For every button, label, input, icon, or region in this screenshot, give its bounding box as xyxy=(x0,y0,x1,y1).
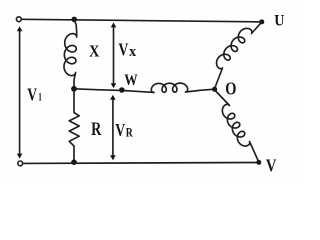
svg-text:1: 1 xyxy=(38,89,42,103)
svg-text:V: V xyxy=(266,156,277,176)
wire mid rail W xyxy=(74,89,154,93)
resistor R xyxy=(69,89,79,162)
winding U-O xyxy=(215,22,262,88)
node V junction dot xyxy=(256,160,261,165)
voltage arrow VR shaft xyxy=(112,98,114,157)
voltage arrow V1 head up xyxy=(17,26,23,31)
wire bottom rail xyxy=(23,162,259,165)
node O junction dot xyxy=(212,87,217,92)
svg-text:V: V xyxy=(27,85,37,105)
voltage arrow V1 shaft xyxy=(19,30,21,156)
svg-text:x: x xyxy=(129,44,136,60)
svg-text:X: X xyxy=(89,42,99,61)
inductor winding W-O xyxy=(151,83,214,92)
voltage arrow Vx head down xyxy=(111,83,117,88)
svg-text:V: V xyxy=(115,120,125,140)
voltage arrow V1 head down xyxy=(17,154,23,159)
svg-text:O: O xyxy=(225,79,236,99)
svg-text:W: W xyxy=(124,72,137,89)
voltage arrow Vx head up xyxy=(111,22,117,27)
svg-text:R: R xyxy=(126,125,133,139)
svg-text:V: V xyxy=(118,40,128,60)
node W dot xyxy=(119,87,125,93)
svg-text:R: R xyxy=(91,119,102,140)
input terminal top-left xyxy=(16,17,21,22)
node dot bottom of R xyxy=(71,159,77,165)
input terminal bottom-left xyxy=(18,161,23,166)
voltage arrow VR head up xyxy=(110,95,116,100)
voltage arrow VR head down xyxy=(110,155,116,160)
winding O-V xyxy=(215,91,259,163)
node dot top of reactor X xyxy=(71,17,77,23)
inductor X (reactor coil) xyxy=(64,19,77,88)
wire top rail xyxy=(22,19,262,22)
svg-text:U: U xyxy=(274,12,284,30)
voltage arrow Vx shaft xyxy=(113,26,115,86)
junction dot X-R-W xyxy=(71,86,77,92)
node U junction dot xyxy=(259,19,264,24)
